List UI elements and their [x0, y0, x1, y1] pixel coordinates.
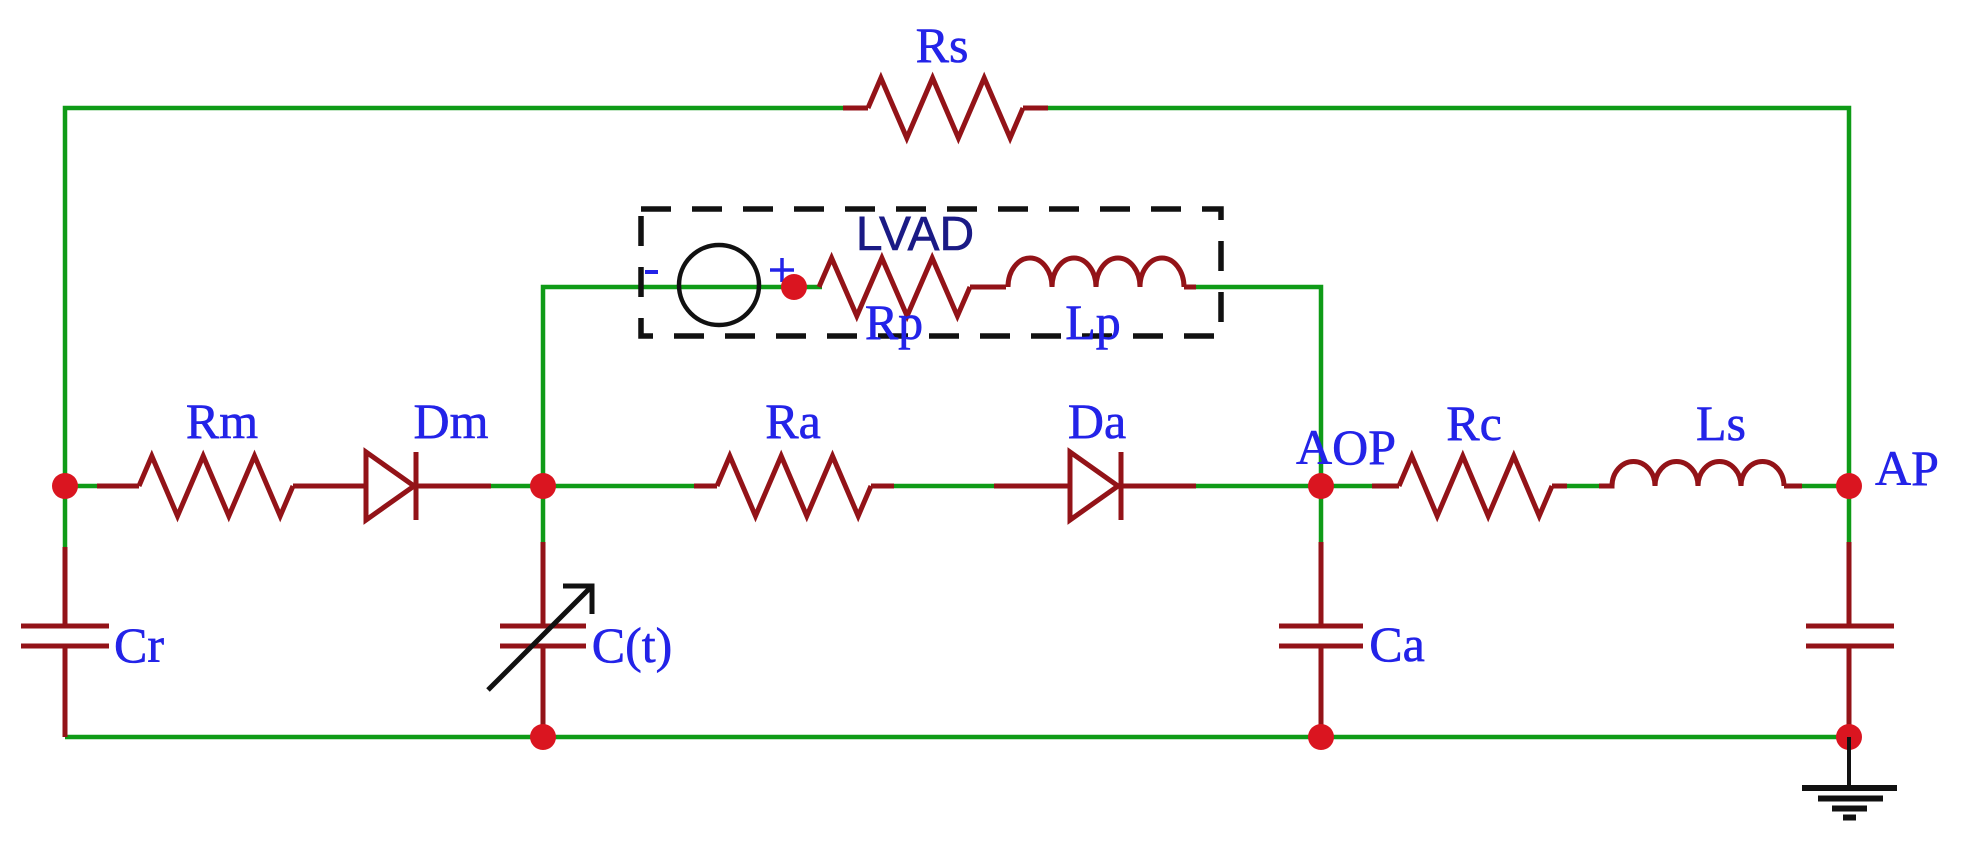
- wire top-left corner to Rs: [65, 108, 843, 486]
- svg-text:AP: AP: [1875, 440, 1939, 496]
- wire Ls to AP node: [1802, 484, 1849, 489]
- wire AP node down: [1847, 486, 1852, 542]
- wire AOP to Rc: [1321, 484, 1372, 489]
- wire C(t) node to Ra: [543, 484, 694, 489]
- capacitor C(t): [541, 542, 546, 626]
- wire C(t) node down: [541, 486, 546, 542]
- variable capacitor arrow: [488, 586, 592, 690]
- node C(t) top: [530, 473, 556, 499]
- svg-text:Ls: Ls: [1696, 395, 1746, 451]
- resistor Rp: [819, 258, 970, 316]
- wire Ra to Da: [894, 484, 995, 489]
- svg-text:AOP: AOP: [1296, 419, 1396, 475]
- capacitor Ca: [1319, 542, 1324, 626]
- source U1 circle: [679, 245, 759, 325]
- LVAD dashed box: [641, 209, 1221, 336]
- svg-text:Ra: Ra: [765, 393, 821, 449]
- wire main line left of Rm: [65, 484, 97, 489]
- source plus sign: [770, 258, 794, 282]
- wire LVAD branch left riser: [543, 287, 794, 486]
- inductor Ls: [1599, 462, 1784, 487]
- wire LVAD branch right riser: [1196, 287, 1321, 486]
- capacitor Cr: [63, 547, 68, 626]
- wire bottom rail: [65, 735, 1849, 740]
- resistor Rc: [1372, 484, 1399, 489]
- node C(t) bottom: [530, 724, 556, 750]
- wire left node down to Cr: [63, 486, 68, 547]
- node AP: [1836, 473, 1862, 499]
- wire Rc to Ls: [1567, 484, 1599, 489]
- svg-text:Rm: Rm: [186, 393, 258, 449]
- svg-text:C(t): C(t): [592, 617, 673, 673]
- node Ca bottom: [1308, 724, 1334, 750]
- node LVAD+: [781, 274, 807, 300]
- svg-text:LVAD: LVAD: [856, 208, 974, 261]
- diode Da: [994, 484, 1070, 489]
- inductor Lp: [1008, 258, 1184, 287]
- wire AOP node down to Ca: [1319, 486, 1324, 542]
- resistor Rm: [97, 484, 139, 489]
- node AOP: [1308, 473, 1334, 499]
- wire Rs to top-right corner down to AP: [1048, 108, 1849, 486]
- wire LVAD branch dot to Rp: [794, 285, 822, 290]
- source minus sign: [645, 270, 658, 274]
- wire Dm to C(t) node: [491, 484, 543, 489]
- diode Dm: [366, 452, 414, 520]
- node left: [52, 473, 78, 499]
- capacitor AP branch: [1847, 542, 1852, 626]
- wire Da to AOP node: [1196, 484, 1321, 489]
- svg-text:Ca: Ca: [1369, 616, 1425, 672]
- resistor Ra: [694, 484, 717, 489]
- ground: [1802, 737, 1897, 818]
- svg-text:Cr: Cr: [114, 617, 164, 673]
- svg-text:Rs: Rs: [916, 17, 969, 73]
- svg-text:Lp: Lp: [1065, 294, 1121, 350]
- svg-text:Rp: Rp: [865, 294, 923, 350]
- svg-text:Dm: Dm: [414, 393, 489, 449]
- svg-text:Rc: Rc: [1446, 395, 1502, 451]
- node ground: [1836, 724, 1862, 750]
- svg-text:Da: Da: [1068, 393, 1126, 449]
- resistor Rs: [843, 106, 868, 111]
